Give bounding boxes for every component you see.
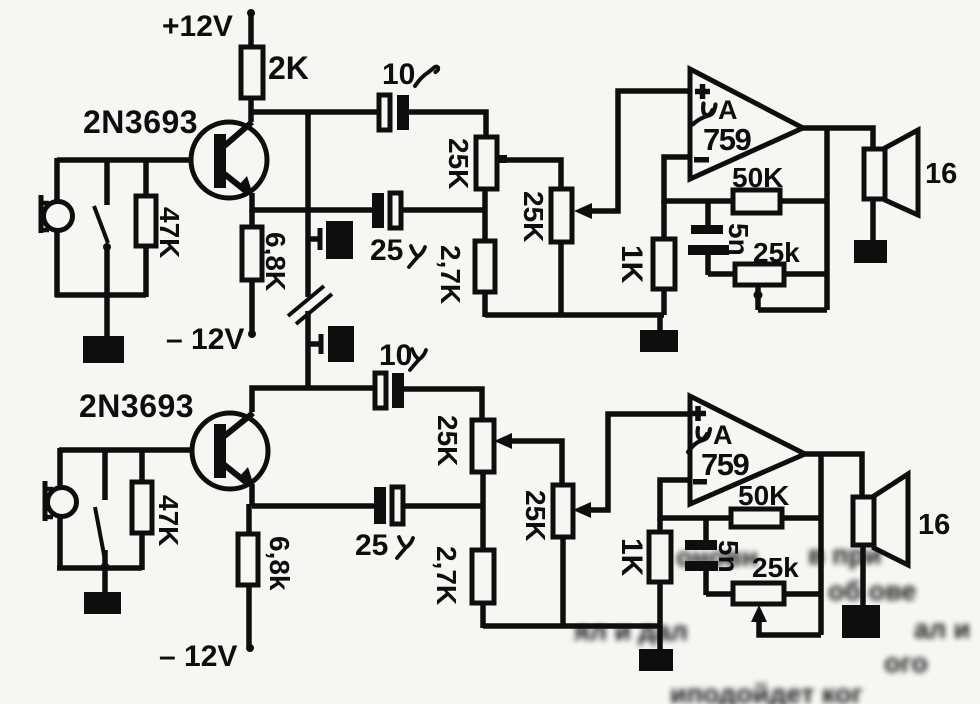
svg-text:2,7K: 2,7K bbox=[435, 245, 466, 304]
wire 25u to node bbox=[401, 207, 485, 213]
ground under 1K bbox=[640, 315, 678, 352]
wire feedback vertical ch2 bbox=[818, 454, 824, 635]
svg-text:6,8k: 6,8k bbox=[264, 536, 295, 591]
wire output ch2 bbox=[802, 454, 862, 499]
wire mic bottom bbox=[54, 229, 60, 297]
wire input bottom rail (ch2) bbox=[57, 565, 142, 571]
svg-text:– 12V: – 12V bbox=[166, 323, 244, 356]
wire 10u to P1 bbox=[409, 112, 486, 140]
ground decoupling lower bbox=[308, 326, 354, 362]
wire input bottom rail bbox=[55, 292, 146, 298]
switch S1 bbox=[94, 158, 111, 300]
svg-text:16: 16 bbox=[918, 509, 950, 541]
svg-text:ого: ого bbox=[884, 648, 928, 678]
wire output bbox=[800, 128, 873, 151]
wire 10u to P4 bbox=[404, 389, 482, 420]
wire vertical interconnect upper bbox=[305, 112, 311, 297]
node -12V terminal ch2 bbox=[159, 640, 254, 673]
wire mic top bottom-ch bbox=[57, 448, 63, 490]
wire bottom rail top channel bbox=[485, 312, 664, 318]
wire 25u to node ch2 bbox=[403, 503, 483, 509]
wire collector node to 10u cap bbox=[249, 109, 379, 115]
ground under speaker bbox=[854, 240, 887, 263]
svg-text:25K: 25K bbox=[432, 415, 463, 466]
capacitor C6 5n bbox=[685, 540, 744, 595]
svg-text:1K: 1K bbox=[615, 538, 648, 577]
speaker SP2 bbox=[853, 474, 950, 565]
svg-text:16: 16 bbox=[925, 158, 957, 190]
resistor R5 1K bbox=[615, 201, 675, 315]
svg-text:10: 10 bbox=[379, 339, 412, 372]
svg-text:759: 759 bbox=[701, 447, 749, 482]
wiper arrow P2 bbox=[574, 91, 690, 219]
wire speaker to ground bbox=[870, 199, 876, 242]
svg-text:A: A bbox=[713, 420, 733, 450]
capacitor C3 5n bbox=[688, 223, 754, 275]
resistor R9 2,7K bbox=[431, 546, 494, 628]
svg-text:25K: 25K bbox=[518, 191, 549, 242]
resistor R10 1K bbox=[615, 518, 671, 628]
resistor R1 2K bbox=[241, 47, 309, 98]
resistor R6 50K bbox=[732, 162, 827, 213]
svg-text:25K: 25K bbox=[443, 138, 474, 189]
ground under speaker ch2 bbox=[842, 605, 880, 638]
wire feedback vertical bbox=[824, 128, 830, 310]
resistor R4 2,7K bbox=[435, 241, 495, 317]
svg-text:5n: 5n bbox=[723, 223, 754, 256]
svg-text:2N3693: 2N3693 bbox=[79, 388, 194, 424]
wire P1 bottom to 2.7K bbox=[482, 189, 488, 243]
microphone M2 bbox=[45, 481, 77, 521]
wire to 5n ch2 bbox=[703, 518, 709, 543]
potentiometer P4 25K bbox=[432, 415, 494, 472]
capacitor C1 10u bbox=[379, 58, 438, 130]
wire base bbox=[57, 157, 192, 163]
ground decoupling upper bbox=[308, 221, 353, 259]
wire P4 bottom to 2.7K ch2 bbox=[480, 472, 486, 552]
svg-text:47K: 47K bbox=[153, 495, 184, 546]
wire speaker to ground ch2 bbox=[860, 545, 866, 607]
svg-text:6,8K: 6,8K bbox=[260, 232, 291, 291]
svg-text:A: A bbox=[718, 95, 738, 125]
svg-text:47K: 47K bbox=[154, 207, 185, 258]
node -12V terminal bbox=[166, 323, 256, 356]
svg-text:759: 759 bbox=[703, 122, 751, 157]
capacitor C2 25u bbox=[370, 193, 425, 267]
transistor Q1 2N3693 bbox=[83, 104, 267, 198]
wire bottom rail ch2 bbox=[483, 623, 660, 629]
wire 5n to 25k pot bbox=[708, 271, 735, 277]
wire inverting input ch2 bbox=[660, 480, 731, 518]
node +12V terminal bbox=[162, 9, 255, 43]
svg-text:2,7K: 2,7K bbox=[431, 546, 462, 605]
switch S2 bbox=[95, 448, 110, 572]
wire collector node to 10u (bottom) bbox=[252, 388, 375, 412]
potentiometer P1 25K bbox=[443, 137, 507, 189]
wire mic top bbox=[54, 158, 60, 204]
ground under switch ch2 bbox=[84, 568, 121, 614]
svg-text:+12V: +12V bbox=[162, 10, 233, 43]
wire base bottom bbox=[59, 447, 193, 453]
svg-text:– 12V: – 12V bbox=[159, 640, 237, 673]
svg-text:25: 25 bbox=[355, 529, 388, 562]
ground under switch bbox=[83, 295, 124, 363]
speaker SP1 bbox=[864, 130, 957, 215]
wire vertical interconnect lower bbox=[305, 311, 311, 390]
break symbol // bbox=[288, 286, 332, 324]
op-amp U1 uA759 bbox=[690, 69, 803, 179]
wiper arrow P5 bbox=[573, 414, 690, 518]
ground under 1K ch2 bbox=[639, 626, 673, 671]
svg-text:5n: 5n bbox=[713, 540, 744, 573]
svg-text:1K: 1K bbox=[615, 245, 648, 284]
capacitor C4 10u bbox=[375, 339, 426, 408]
transistor Q2 2N3693 bbox=[79, 388, 268, 489]
wire inverting input bbox=[664, 157, 733, 201]
resistor R3 6.8K bbox=[242, 210, 291, 332]
wiper arrow P4 bbox=[494, 433, 562, 486]
wire emitter down bbox=[249, 193, 255, 212]
wiper P3 bbox=[754, 285, 828, 310]
svg-text:50K: 50K bbox=[738, 480, 789, 511]
svg-text:25K: 25K bbox=[520, 490, 551, 541]
wire 5n to 25k pot ch2 bbox=[706, 591, 733, 597]
svg-text:10: 10 bbox=[382, 58, 415, 91]
wire P5 bottom bbox=[560, 537, 566, 626]
potentiometer P6 25k bbox=[733, 552, 821, 604]
svg-text:иподойдет ког: иподойдет ког bbox=[670, 679, 863, 704]
wire 2K to collector node bbox=[248, 98, 254, 122]
microphone M1 bbox=[41, 195, 73, 233]
svg-text:об ове: об ове bbox=[828, 576, 916, 606]
svg-text:2K: 2K bbox=[268, 50, 309, 86]
wiper arrow P6 bbox=[751, 605, 821, 635]
potentiometer P3 25k bbox=[735, 237, 827, 285]
wire to 5n bbox=[705, 201, 711, 228]
faint page bleed-through bbox=[573, 540, 970, 704]
wire +12V to 2K bbox=[248, 13, 254, 47]
resistor R7 47K bbox=[132, 450, 184, 570]
svg-text:2N3693: 2N3693 bbox=[83, 104, 198, 140]
svg-text:25k: 25k bbox=[752, 552, 799, 583]
op-amp U2 uA759 bbox=[688, 396, 805, 504]
wire P2 bottom bbox=[558, 242, 564, 315]
wire emitter to 25u bbox=[252, 207, 373, 213]
resistor R2 47K bbox=[136, 160, 185, 297]
wire mic bottom bottom-ch bbox=[57, 515, 63, 570]
svg-text:ял и дал: ял и дал bbox=[573, 616, 688, 646]
svg-text:25: 25 bbox=[370, 234, 403, 267]
capacitor C5 25u bbox=[355, 487, 413, 562]
resistor R11 50K bbox=[731, 480, 821, 527]
resistor R8 6,8k bbox=[238, 504, 295, 646]
potentiometer P5 25K bbox=[520, 485, 573, 541]
wire emitter down bottom bbox=[249, 484, 255, 506]
potentiometer P2 25K bbox=[518, 189, 572, 242]
svg-text:ал и: ал и bbox=[914, 614, 970, 644]
wire P1 wiper to P2 bbox=[505, 160, 561, 190]
wire emitter to 25u ch2 bbox=[252, 503, 376, 509]
